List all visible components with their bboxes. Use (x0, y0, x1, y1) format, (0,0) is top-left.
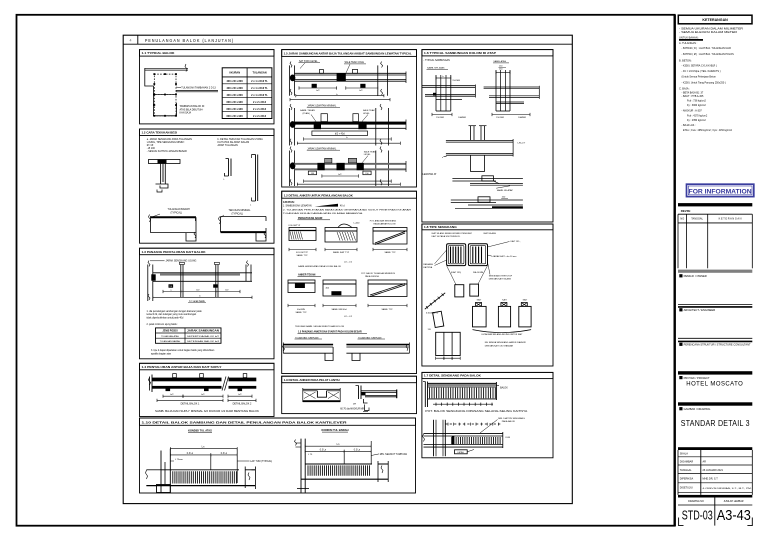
svg-text:40 d: 40 d (340, 206, 345, 208)
svg-text:Fub : 4270 kg/cm2: Fub : 4270 kg/cm2 (687, 115, 708, 118)
svg-text:(KAIT 135): (KAIT 135) (451, 271, 461, 274)
svg-text:- K250 ( Untuk Tiang Pancang 2: - K250 ( Untuk Tiang Pancang 250x250 ) (682, 81, 726, 84)
svg-text:26 JANUARI 2021: 26 JANUARI 2021 (703, 469, 724, 472)
left cantilever right end (239, 469, 245, 486)
svg-text:SAMB. BAJA DAN SUPLY MINIMAL b: SAMB. BAJA DAN SUPLY MINIMAL b/2 DIUKUR … (155, 410, 260, 413)
svg-text:KAN SAJA: KAN SAJA (180, 112, 192, 115)
mid lines 1.1 (176, 89, 218, 91)
right cantilever beam end (372, 463, 378, 478)
svg-text:B. BETON :: B. BETON : (679, 59, 693, 63)
right cantilever foot (297, 488, 309, 490)
revisi black bar (678, 203, 752, 206)
svg-text:SAMB. TYP: SAMB. TYP (295, 311, 307, 314)
keterangan header box (678, 15, 752, 24)
svg-text:(TYPICAL): (TYPICAL) (232, 212, 244, 215)
svg-text:SAMB. ANKER ATAS PADA UJUNG BA: SAMB. ANKER ATAS PADA UJUNG BALOK (298, 265, 342, 268)
svg-text:JUMLAH LEMBAR: JUMLAH LEMBAR (723, 500, 743, 503)
title block divider line (674, 15, 676, 526)
svg-text:Fy : 2350 kg/cm2: Fy : 2350 kg/cm2 (687, 119, 706, 122)
dimension lines 1.3 (163, 291, 181, 293)
svg-text:2 x 1 x D13 TL: 2 x 1 x D13 TL (251, 87, 268, 90)
middle column joint 1.6 (470, 126, 472, 141)
bottom beam left notes-box (283, 344, 333, 346)
stirrups 1.3 (180, 265, 182, 298)
untuk bahan underline (679, 39, 703, 41)
svg-text:JARAK KAIT - dia 10 mm: JARAK KAIT - dia 10 mm (493, 255, 517, 258)
svg-text:L 75: L 75 (308, 454, 313, 456)
bottom beam right notes-box (346, 344, 409, 346)
svg-text:- TYPICAL SAMBUNGAN: - TYPICAL SAMBUNGAN (424, 59, 451, 62)
diagram A left column 1.5 (289, 65, 291, 95)
bottom column 1.7 (433, 420, 435, 456)
svg-text:1.2 DETAIL ANKER UNTUK PENULA: 1.2 DETAIL ANKER UNTUK PENULANGAN BALOK (284, 193, 354, 197)
svg-text:2 x 2 x D13: 2 x 2 x D13 (253, 115, 267, 118)
svg-text:LEVEL: LEVEL (363, 113, 371, 115)
svg-text:DIA/MM: DIA/MM (458, 116, 466, 119)
svg-text:DIGAMBAR: DIGAMBAR (680, 461, 694, 464)
hook stirrup 3 1.8 (519, 306, 531, 327)
svg-text:1.8 TIPE SENGKANG: 1.8 TIPE SENGKANG (424, 225, 458, 229)
bottom beam 1.7 (424, 432, 503, 434)
box 1.10 detail balok kantilever (140, 418, 416, 425)
left column 1.3 (147, 265, 149, 302)
svg-text:BALOK: BALOK (500, 386, 508, 389)
svg-text:1. SAMBUNGAN LEWATAN: 1. SAMBUNGAN LEWATAN (283, 205, 312, 208)
proyek black bar (678, 371, 752, 374)
svg-text:KONDISI TUL BAWAH: KONDISI TUL BAWAH (322, 428, 349, 432)
drawing no black bar (678, 495, 752, 498)
svg-text:DIPERIKSA: DIPERIKSA (680, 478, 694, 481)
diagram B beam 1.5 (295, 122, 407, 125)
svg-text:DENGAN KAIT SILANG: DENGAN KAIT SILANG (489, 277, 512, 280)
right cantilever leader text (371, 454, 379, 456)
svg-text:L: L (224, 179, 226, 181)
diagram C lap boxes 1.5 (308, 171, 316, 175)
svg-text:JARAK SAMBUNGAN: JARAK SAMBUNGAN (187, 330, 219, 333)
svg-text:a: a (442, 157, 444, 159)
svg-text:TULANGAN ATAS: TULANGAN ATAS (161, 335, 179, 338)
svg-text:DIA 10 MM: DIA 10 MM (473, 271, 484, 274)
architect label (679, 308, 682, 311)
diagram A right column 1.5 (377, 65, 379, 95)
column outline 1.1 (145, 68, 177, 116)
diagram B left column 1.5 (289, 108, 291, 146)
svg-text:TANGGAL: TANGGAL (680, 469, 692, 472)
svg-text:Fy : 3000 kg/cm2: Fy : 3000 kg/cm2 (687, 104, 706, 107)
svg-text:KAIT: KAIT (502, 299, 507, 302)
svg-text:0.3 Ln: 0.3 Ln (187, 453, 194, 455)
T-section drawing 1.2 (149, 160, 181, 164)
svg-text:2 x 2 x D13: 2 x 2 x D13 (253, 101, 267, 104)
svg-text:(PLAN): (PLAN) (303, 112, 310, 115)
beam top lines 1.1 (145, 67, 189, 69)
left cantilever column (160, 451, 162, 493)
svg-text:REVISI: REVISI (681, 209, 691, 213)
svg-text:PERENCANA STRUKTUR / STRUCTURE: PERENCANA STRUKTUR / STRUCTURE CONSULTAN… (684, 344, 752, 347)
svg-text:- SESUAI KAITNYA JANGAN BESAR: - SESUAI KAITNYA JANGAN BESAR (147, 150, 187, 153)
cell rect 1.8 (436, 332, 461, 355)
svg-text:STD-03: STD-03 (682, 508, 713, 523)
svg-text:135: 135 (428, 329, 432, 331)
bottom drawing dashes 1.7 (445, 423, 502, 425)
svg-text:Ln: Ln (202, 446, 205, 449)
svg-text:MIN. DIA TIPE SENGKANG: MIN. DIA TIPE SENGKANG (498, 417, 525, 420)
corner brackets sheet codes (679, 518, 684, 526)
svg-text:KOLOM/TYP: KOLOM/TYP (289, 225, 301, 227)
revisi table (678, 213, 752, 215)
svg-text:600 x W x 900: 600 x W x 900 (226, 108, 243, 111)
top label 1.3 (150, 260, 165, 262)
svg-text:AR: AR (703, 461, 707, 464)
svg-text:JARAK LEWATAN MINIMAL: JARAK LEWATAN MINIMAL (307, 105, 337, 108)
svg-text:ARAH TULANGAN: ARAH TULANGAN (218, 144, 239, 147)
info table black bar (678, 447, 752, 450)
svg-text:GAMBAR / DRAWING: GAMBAR / DRAWING (684, 407, 711, 411)
svg-text:C. BAJA :: C. BAJA : (679, 87, 690, 91)
diagram C hooks 1.5 (325, 158, 332, 163)
svg-text:L 75mm: L 75mm (175, 459, 183, 461)
svg-text:1.6 TYPICAL SAMBUNGAN KOLOM D: 1.6 TYPICAL SAMBUNGAN KOLOM DI ATAP (424, 51, 496, 55)
svg-text:- FC = 24.9 Mpa ( TEG. KARAKT: - FC = 24.9 Mpa ( TEG. KARAKTS ) (682, 70, 721, 73)
svg-text:2. TULANGAN PERLETAKAN BATAS A: 2. TULANGAN PERLETAKAN BATAS ATAS GESERA… (283, 209, 412, 212)
svg-text:b/2 + 40d: b/2 + 40d (335, 134, 345, 136)
for information stamp (687, 184, 754, 196)
svg-text:POT. ATAS BAR SENGKANG: POT. ATAS BAR SENGKANG (370, 220, 397, 223)
lap splice 1 1.6 (452, 178, 523, 180)
detail tag 1.7 (455, 450, 468, 454)
svg-text:E70xx ; Fuw : 4950 kg/cm2 ; Fy: E70xx ; Fuw : 4950 kg/cm2 ; Fyw : 4150 k… (683, 130, 733, 132)
svg-text:1.4 PENYALURAN ANTAR BAJA DAN: 1.4 PENYALURAN ANTAR BAJA DAN KAIT SUPLY (142, 365, 222, 369)
stirrup R1 1.8 (447, 244, 466, 266)
mini r2d3 (368, 280, 407, 297)
diagram B dims 1.5 (304, 138, 392, 140)
svg-text:CATATAN :: CATATAN : (283, 201, 296, 204)
main drawing frame (123, 35, 572, 503)
svg-text:4: 4 (130, 39, 132, 43)
svg-text:DETAIL BALOK 2: DETAIL BALOK 2 (233, 403, 252, 406)
owner label (679, 274, 682, 277)
diagram B right column 1.5 (375, 108, 377, 146)
svg-text:600 x W x 900: 600 x W x 900 (226, 101, 243, 104)
hook stirrup 2 1.8 (498, 306, 510, 327)
svg-text:L/2 + L/2: L/2 + L/2 (344, 316, 353, 318)
left cantilever stub (146, 469, 161, 471)
svg-text:TULANGAN BAWAH: TULANGAN BAWAH (160, 340, 181, 343)
small stirrups 1.8 (455, 285, 464, 297)
plus tick row 1.7 (433, 403, 493, 405)
svg-text:IKAT SILANG SEBELUM PAKU PENGI: IKAT SILANG SEBELUM PAKU PENGIKAT (432, 232, 473, 235)
black squares below 1.4 (166, 388, 171, 391)
rotated stirrup 1.8 (433, 311, 444, 327)
svg-text:2 x 2 x D13: 2 x 2 x D13 (253, 108, 267, 111)
svg-text:NB: SEMUA SENGKANG HARUS DIAKH: NB: SEMUA SENGKANG HARUS DIAKHIRI (485, 341, 527, 344)
svg-text:SAMB. KAIT TYP: SAMB. KAIT TYP (333, 251, 350, 254)
owner gray bar (678, 270, 752, 273)
box 1.8 tipe sengkang (422, 224, 553, 230)
svg-text:STANDAR DETAIL 3: STANDAR DETAIL 3 (681, 419, 750, 428)
svg-text:40d MIN: 40d MIN (297, 309, 305, 311)
svg-text:KLM: KLM (506, 437, 511, 439)
svg-text:2 x 1 x D13 TL: 2 x 1 x D13 TL (251, 94, 268, 97)
svg-text:POT. BALOK TULANGAN MENERUS: POT. BALOK TULANGAN MENERUS (361, 272, 395, 275)
beam lines 1.3 (153, 272, 252, 274)
gambar label (679, 407, 682, 410)
stirrup R2 1.8 (468, 244, 487, 266)
proyek label (679, 376, 682, 379)
svg-text:1.3 PANJANG PENYALURAN KAIT B: 1.3 PANJANG PENYALURAN KAIT BALOK (142, 250, 207, 254)
svg-text:1.7 DETAIL SENGKANG PADA BALO: 1.7 DETAIL SENGKANG PADA BALOK (424, 374, 482, 378)
svg-text:UNTUK BAHAN :: UNTUK BAHAN : (679, 35, 699, 39)
hooks above 1.4 (173, 374, 177, 378)
svg-text:40d: 40d (326, 288, 330, 290)
svg-text:apabila bagian atas: apabila bagian atas (151, 352, 172, 355)
svg-text:KETERANGAN: KETERANGAN (702, 18, 728, 22)
svg-text:HOTEL MOSCATO: HOTEL MOSCATO (686, 381, 743, 388)
svg-text:1.5 JARAK SAMBUNGAN ANTAR BAJ: 1.5 JARAK SAMBUNGAN ANTAR BAJA TULANGAN … (284, 52, 412, 56)
svg-text:TANGGAL: TANGGAL (691, 218, 703, 221)
leader text 1.7 (480, 420, 498, 434)
svg-text:ARCHITECT / ENGINEER: ARCHITECT / ENGINEER (684, 308, 716, 312)
svg-text:KAIT: KAIT (523, 299, 528, 302)
svg-text:JENIS POSISI: JENIS POSISI (163, 331, 178, 333)
svg-text:SAMB. TYP: SAMB. TYP (381, 308, 393, 311)
svg-text:SEPERTIGA BALOK b/2: SEPERTIGA BALOK b/2 (187, 335, 220, 338)
svg-text:4-CREVIS NIDRIAN, S.T., M.T.,: 4-CREVIS NIDRIAN, S.T., M.T., PM. (703, 487, 753, 490)
left end 1.4 (151, 375, 153, 393)
box 1.2 cara tekukan besi (140, 129, 275, 136)
break gap 1.4 (222, 377, 229, 390)
left cantilever beam (161, 469, 255, 471)
right cantilever dims (305, 445, 371, 447)
box detail anker notes (282, 191, 417, 198)
svg-text:NO: NO (680, 218, 684, 221)
top comb beam 1.7 (424, 382, 426, 408)
svg-text:POT. BALOK SENGKANG DIPASANG S: POT. BALOK SENGKANG DIPASANG SELANG-SELI… (425, 410, 528, 413)
slab drawing 1.9 (303, 388, 340, 390)
svg-text:600 x W x 900: 600 x W x 900 (226, 115, 243, 118)
svg-text:L/2 + L/2: L/2 + L/2 (344, 261, 353, 263)
svg-text:FOR INFORMATION: FOR INFORMATION (689, 188, 752, 195)
svg-text:0.3 Ln: 0.3 Ln (320, 449, 327, 451)
bar shape b1 1.2 (228, 159, 230, 177)
mini r2d2 (323, 280, 356, 296)
left cantilever leader text (237, 460, 249, 462)
svg-text:- BJTP40 ( Ø ) : ALAT BAJ. T: - BJTP40 ( Ø ) : ALAT BAJ. TULANGAN POLO… (682, 53, 735, 56)
svg-text:DIA/MM: DIA/MM (518, 116, 526, 119)
svg-text:TUL: TUL (169, 286, 172, 288)
hook stirrup 1 1.8 (473, 306, 487, 327)
architect section lines (678, 303, 752, 305)
svg-text:SALE TEAK: SALE TEAK (363, 109, 375, 112)
svg-text:- BAJA LAS :: - BAJA LAS : (682, 124, 696, 127)
svg-text:0.3 Ln: 0.3 Ln (221, 453, 228, 455)
svg-text:PEMILIK / OWNER: PEMILIK / OWNER (684, 274, 707, 278)
svg-text:150: 150 (365, 173, 368, 175)
svg-text:- BAUT : HTB A-325: - BAUT : HTB A-325 (682, 95, 705, 98)
svg-text:PENULANGAN BALOK (LANJUTAN): PENULANGAN BALOK (LANJUTAN) (145, 38, 234, 43)
gambar black bar (678, 402, 752, 405)
svg-text:150 MM: 150 MM (452, 80, 460, 82)
perencana section lines (678, 337, 752, 339)
right cantilever column (300, 439, 302, 493)
svg-text:IKAT SILANG: IKAT SILANG (483, 232, 496, 235)
hook mark 1.9 (365, 405, 370, 411)
svg-text:KAIT: KAIT (477, 299, 482, 302)
diagram C right column 1.5 (375, 151, 377, 187)
svg-text:400 x W x 800: 400 x W x 800 (226, 94, 243, 97)
sheet header bar (123, 43, 572, 45)
diagram A hooks 1.5 (320, 70, 324, 74)
svg-text:- BJTD40 ( D ) : ALAT BAJ.: - BJTD40 ( D ) : ALAT BAJ. TULANGAN ULIR (682, 47, 732, 50)
box 1.6 typical sambungan atap (422, 50, 553, 56)
svg-text:150 MM: 150 MM (436, 117, 444, 119)
svg-text:LAP. TUM (TYPICAL): LAP. TUM (TYPICAL) (250, 460, 272, 463)
svg-text:L=40d: L=40d (354, 223, 361, 225)
svg-text:DETAIL BALOK 1: DETAIL BALOK 1 (181, 403, 200, 406)
svg-text:A. TULANGAN :: A. TULANGAN : (679, 41, 698, 45)
svg-text:1.10 DETAIL BALOK SAMBUNG DAN: 1.10 DETAIL BALOK SAMBUNG DAN DETAIL PEN… (142, 420, 349, 424)
svg-text:Fub : 736 kg/cm2: Fub : 736 kg/cm2 (687, 100, 706, 103)
svg-text:PADA BALOK: PADA BALOK (502, 420, 516, 423)
svg-text:SAMB. TEKAN: SAMB. TEKAN (300, 109, 315, 112)
svg-text:L/B+L/T: L/B+L/T (518, 142, 526, 144)
svg-text:L: L (250, 205, 252, 207)
info table rows (678, 456, 752, 458)
svg-text:1. dia penulangan sambungan de: 1. dia penulangan sambungan dengan diame… (147, 310, 203, 313)
diagram A squares 1.5 (312, 84, 317, 88)
svg-text:DISETUJUI: DISETUJUI (680, 487, 693, 490)
box 1.4 beam splice elevation (140, 363, 275, 370)
diagram C dims 1.5 (322, 175, 359, 177)
svg-text:- ANGKUR : A-307: - ANGKUR : A-307 (682, 110, 703, 113)
diagram A dims 1.5 (299, 87, 337, 89)
svg-text:(Untuk Semua Pekerjaan Beton: (Untuk Semua Pekerjaan Beton (682, 76, 717, 79)
diagram B hooks 1.5 (321, 114, 327, 122)
svg-text:b/2: b/2 (359, 90, 363, 92)
box 1.3 panjang penyaluran (140, 248, 275, 255)
svg-text:(TYPICAL): (TYPICAL) (171, 211, 183, 214)
svg-text:KAIT 135 ;: KAIT 135 ; (511, 240, 521, 243)
svg-text:SALE TEAK: SALE TEAK (364, 150, 376, 153)
svg-text:KONDISI TUL ATAS: KONDISI TUL ATAS (188, 429, 212, 433)
perencana label (679, 343, 682, 346)
svg-text:1.9 DETAIL ANKER PADA PELAT L: 1.9 DETAIL ANKER PADA PELAT LANTAI (284, 378, 340, 382)
svg-text:PROYEK / PROJECT: PROYEK / PROJECT (684, 376, 710, 380)
leader note 1.1 (176, 86, 181, 89)
svg-text:SENGKANG TERTUTUP: SENGKANG TERTUTUP (489, 274, 513, 277)
beam black bars 1.4 (152, 378, 256, 382)
svg-text:- BETA BAJA BJ. 37: - BETA BAJA BJ. 37 (682, 91, 704, 94)
diagram C left column 1.5 (289, 151, 291, 187)
svg-text:150 MM: 150 MM (496, 117, 504, 119)
svg-text:LETAKKAN SELANG-SELING UNTUK K: LETAKKAN SELANG-SELING UNTUK KAIT (482, 333, 524, 336)
diagram B lap box 1.5 (312, 131, 368, 136)
svg-text:SKALA: SKALA (680, 453, 688, 456)
svg-text:DETAIL: DETAIL (458, 451, 464, 454)
svg-text:400 x W x 800: 400 x W x 800 (226, 87, 243, 90)
box 1.1 typical balok (140, 50, 275, 57)
svg-text:60 70 dia ANGKUR MIN: 60 70 dia ANGKUR MIN (340, 408, 365, 411)
svg-text:SAMB. KE ATAP: SAMB. KE ATAP (497, 189, 514, 192)
svg-text:KAITNYA: KAITNYA (423, 266, 432, 269)
box 1.7 detail sengkang balok (422, 372, 553, 378)
svg-text:Ln: Ln (337, 443, 340, 446)
mini r1d2 (325, 228, 357, 243)
svg-text:150: 150 (499, 68, 503, 70)
svg-text:DH: DH (353, 403, 357, 405)
svg-text:- K350 ( SETARA CYLN K-BLR ): - K350 ( SETARA CYLN K-BLR ) (682, 64, 717, 67)
svg-text:1.2 CARA TEKUKAN BESI: 1.2 CARA TEKUKAN BESI (142, 131, 178, 135)
svg-text:TEKUKAN SAMB. SESUAI KEBUTUHAN: TEKUKAN SAMB. SESUAI KEBUTUHAN KOLOM (295, 325, 344, 328)
right cantilever beam (305, 463, 388, 465)
svg-text:0.3 Ln: 0.3 Ln (354, 449, 361, 451)
svg-text:2 x 1 x D13 TL: 2 x 1 x D13 TL (251, 80, 268, 83)
svg-text:TULANGAN SESUAI DAERAH ATAS KE: TULANGAN SESUAI DAERAH ATAS KE ARAH BAWA… (283, 212, 364, 215)
svg-text:K E T E R A N G A N: K E T E R A N G A N (719, 218, 742, 221)
dims 1.4 (163, 395, 183, 397)
svg-text:A3-43: A3-43 (717, 507, 751, 524)
svg-text:SAMB. TYP: SAMB. TYP (384, 251, 396, 254)
svg-text:tidak diperbolehkan untuk jara: tidak diperbolehkan untuk jarak 40d (147, 317, 184, 320)
svg-text:PADA DINDING: PADA DINDING (365, 275, 380, 278)
svg-text:SAMB. TYP: SAMB. TYP (296, 254, 308, 257)
box 1.9 detail anker lantai (282, 376, 417, 383)
svg-text:1.1 TYPICAL BALOK: 1.1 TYPICAL BALOK (142, 51, 176, 55)
svg-text:150: 150 (311, 173, 314, 175)
svg-text:KOLOM TYP: KOLOM TYP (296, 252, 309, 254)
dashed rebar zone 1.1 (154, 74, 176, 94)
svg-text:DRAWING NO: DRAWING NO (688, 500, 704, 503)
svg-text:JARAK LEWATAN MINIMAL: JARAK LEWATAN MINIMAL (307, 147, 337, 150)
bar shape b2 1.2 (255, 155, 257, 202)
svg-text:3. tipe 2 dapat dipadukan untu: 3. tipe 2 dapat dipadukan untuk bagian b… (151, 349, 215, 352)
svg-text:MHD.DR, S.T: MHD.DR, S.T (703, 478, 719, 481)
svg-text:DENGAN KAIT 135 STANDAR: DENGAN KAIT 135 STANDAR (485, 344, 514, 347)
svg-text:TULANGAN: TULANGAN (252, 72, 266, 75)
svg-text:MIN. SELIMUT TUMPUAN: MIN. SELIMUT TUMPUAN (380, 453, 408, 456)
diagonal tick bar 1.8 (425, 293, 445, 309)
underbrace 1.8 (473, 330, 532, 333)
table 1.1 (222, 68, 272, 119)
svg-text:LEWATAN AT: LEWATAN AT (423, 173, 438, 176)
svg-text:TULANGAN TAMBAHAN 2 D 13: TULANGAN TAMBAHAN 2 D 13 (181, 87, 216, 90)
mini r2d1 (288, 280, 315, 293)
box 1.5 jarak sambungan tulangan (282, 50, 417, 57)
svg-text:terkecil 2d, dan tulangan yang: terkecil 2d, dan tulangan yang mutu samb… (147, 313, 197, 316)
svg-text:400 x W x 800: 400 x W x 800 (226, 80, 243, 83)
svg-text:PADA DAERAH KOLOM: PADA DAERAH KOLOM (374, 222, 396, 225)
table 1.3 (156, 328, 222, 343)
svg-text:PANJANG: PANJANG (423, 263, 433, 266)
svg-text:b/2: b/2 (316, 90, 320, 92)
svg-text:2. jarak minimum ujung balok :: 2. jarak minimum ujung balok : (147, 323, 179, 326)
svg-text:b = anak balok: b = anak balok (189, 300, 205, 303)
diagram C beam 1.5 (295, 163, 407, 165)
svg-text:SETENGAH BALOK b/4: SETENGAH BALOK b/4 (187, 340, 220, 343)
svg-text:KAIT 90 PADA SISI TERKECIL: KAIT 90 PADA SISI TERKECIL (432, 235, 461, 238)
right column 1.3 (245, 265, 247, 282)
corner joint drawing 1.9 (358, 386, 360, 400)
svg-text:UKURAN: UKURAN (229, 72, 240, 75)
diagram A beam 1.5 (295, 72, 407, 74)
svg-text:- SEMUA ELEVASI DALAM METER: - SEMUA ELEVASI DALAM METER (679, 30, 737, 34)
svg-text:SAMB. MIN 40d: SAMB. MIN 40d (332, 308, 348, 311)
left cantilever dims (170, 448, 237, 450)
